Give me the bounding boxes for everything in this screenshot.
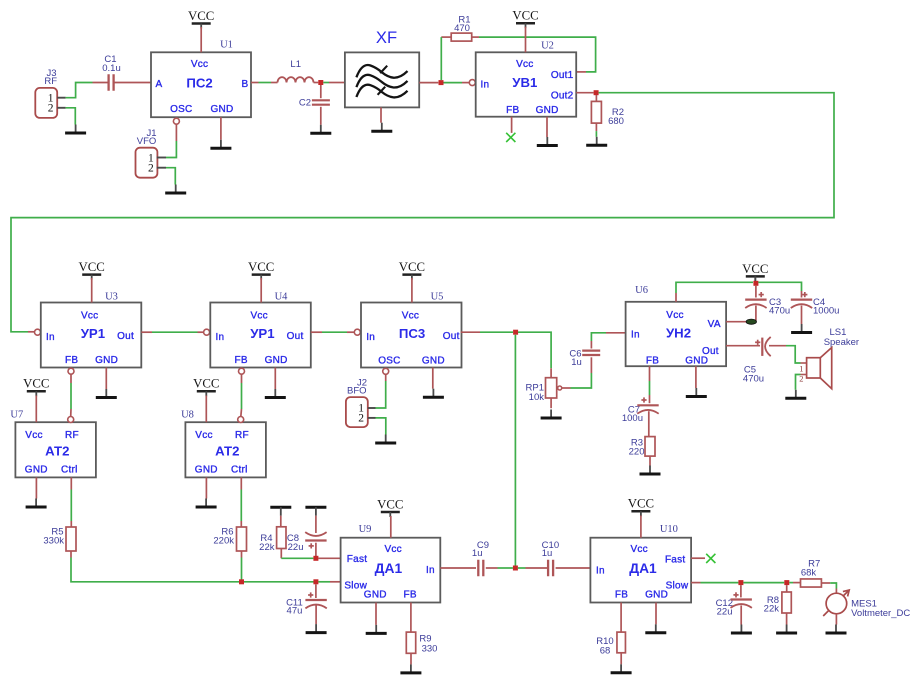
VCC symbol U10 [628,497,654,517]
wire U1 B to L1 [251,82,278,84]
node C8/Fast junction [313,556,318,561]
ground R10 [611,664,632,673]
node U5 Out junction [513,330,518,335]
wire feedback Out2 to U3 In [11,93,834,332]
capacitor C11 47u [286,584,327,624]
wire VCC to U3 Vcc pin [91,278,93,303]
ground R3 [640,466,661,475]
svg-text:In: In [216,332,225,343]
svg-text:ПС3: ПС3 [399,326,425,341]
svg-text:BFO: BFO [347,386,367,397]
ground J1 [165,185,186,194]
svg-text:Voltmeter_DC: Voltmeter_DC [851,608,910,619]
wire junction to XF [323,82,345,84]
wire to R8 node [743,582,784,584]
ground U8 GND [196,499,217,508]
svg-text:VCC: VCC [248,260,274,274]
svg-text:ДА1: ДА1 [375,561,403,576]
svg-text:68: 68 [600,645,611,656]
svg-text:Vcc: Vcc [250,311,267,322]
wire U6 VA to C3 [726,319,756,324]
connector J2 (BFO) [346,377,376,427]
svg-text:L1: L1 [290,59,301,70]
wire R1 to node [440,37,442,80]
svg-text:22k: 22k [259,542,275,553]
VCC symbol U8 [193,377,219,397]
wire VCC to U10 Vcc pin [640,516,642,538]
wire U4 Out to U5 In [311,331,354,333]
ground speaker [785,390,806,399]
svg-text:U2: U2 [541,41,554,52]
svg-text:Vcc: Vcc [191,59,208,70]
VCC symbol U4 [248,260,274,280]
U7 RF pin circle [68,417,74,423]
svg-text:GND: GND [536,105,559,116]
svg-text:RF: RF [65,430,79,441]
svg-text:Fast: Fast [347,554,367,565]
svg-text:GND: GND [364,589,387,600]
svg-text:47u: 47u [287,606,303,617]
U2 GND stub [546,117,548,137]
VCC symbol U7 [23,377,49,397]
XF bottom pin stub [380,107,382,122]
svg-text:Out1: Out1 [551,70,574,81]
resistor R2 680 [591,95,624,137]
svg-text:U5: U5 [431,292,444,303]
svg-text:VCC: VCC [512,9,538,23]
svg-text:C2: C2 [299,97,311,108]
wire U6 FB to C7 [649,366,651,403]
wire speaker pin2 to ground [796,375,807,390]
ground R9 [400,664,421,673]
wire VCC to U7 Vcc pin [35,396,37,423]
U5 GND stub [432,368,434,389]
svg-text:FB: FB [646,356,659,367]
svg-text:Speaker: Speaker [824,337,859,348]
svg-text:Out2: Out2 [551,90,574,101]
svg-text:Ctrl: Ctrl [61,465,78,476]
svg-text:330: 330 [422,643,438,654]
VCC symbol U6 [742,262,768,282]
svg-text:FB: FB [506,105,519,116]
svg-text:GND: GND [265,355,288,366]
ground MES1 [826,625,847,634]
resistor R6 220k [213,527,246,558]
svg-text:U4: U4 [275,292,289,303]
wire R7 to voltmeter [830,583,836,593]
svg-text:VA: VA [708,319,721,330]
IC U2 УВ1 amplifier [476,41,577,117]
capacitor C1 0.1u [93,54,152,91]
ground U10 GND [645,624,666,633]
U8 GND stub [205,477,207,498]
ground U4 GND [265,389,286,398]
wire U6 Vcc to VCC rail [676,282,753,302]
node L1/C2/XF junction [318,80,323,85]
ground R8 [776,625,797,634]
ground U3 GND [96,389,117,398]
ground U7 GND [26,499,47,508]
svg-text:УВ1: УВ1 [512,75,537,90]
wire XF out to node [419,82,438,84]
U8 RF pin circle [238,417,244,423]
IC U6 УН2 audio amplifier [626,285,727,366]
IC U7 АТ2 AGC [10,410,96,478]
svg-text:22k: 22k [764,604,780,615]
svg-text:220k: 220k [213,535,234,546]
connector J3 (RF input) [35,68,65,118]
svg-text:2: 2 [48,103,54,115]
svg-text:RF: RF [44,76,57,87]
wire C5 to speaker pin1 [786,346,807,363]
resistor R4 22k [259,516,286,559]
U4 GND stub [274,368,276,390]
node Out2/R2 junction [594,90,599,95]
wire Slow bus to U9 Slow pin [318,581,340,583]
IC U3 УР1 IF amplifier [41,292,142,368]
wire R4 to Fast node [281,557,313,559]
wire R5 to Slow bus [71,558,239,582]
svg-text:VCC: VCC [628,497,654,511]
resistor R3 220 [629,437,655,466]
U4 FB pin circle [239,368,245,374]
U4 In pin circle [204,329,210,335]
svg-text:In: In [596,565,605,576]
svg-text:XF: XF [376,28,397,47]
capacitor C8 22u [287,516,327,556]
svg-text:FB: FB [65,355,78,366]
U10 Fast no-connect [691,554,715,563]
wire node to U2 In [444,82,470,84]
U2 Out2 stub [576,92,593,94]
wire VCC to U4 Vcc pin [260,278,262,303]
svg-text:1u: 1u [571,357,582,368]
VCC symbol U3 [79,260,105,280]
capacitor C5 470u [726,337,786,384]
VCC symbol U1 [188,9,214,29]
wire U9 In to C9 [440,567,476,569]
svg-text:Vcc: Vcc [666,310,683,321]
ground C8 inverted [305,507,326,516]
svg-text:U1: U1 [220,40,233,51]
crystal filter XF [345,28,419,108]
IC U1 ПС2 mixer [151,40,251,118]
ground J3 [65,125,86,134]
U1 pin GND stub [220,117,222,140]
svg-text:U10: U10 [660,524,678,535]
svg-text:GND: GND [195,465,218,476]
svg-text:VCC: VCC [742,262,768,276]
svg-text:АТ2: АТ2 [215,444,239,459]
svg-text:680: 680 [608,116,624,127]
svg-text:Out: Out [287,331,304,342]
resistor R9 330 [406,632,437,664]
wire VCC to U9 Vcc pin [390,516,392,538]
svg-text:ПС2: ПС2 [186,75,212,90]
svg-text:VCC: VCC [23,377,49,391]
svg-text:Vcc: Vcc [25,430,42,441]
wire J1 pin2 to ground [166,168,175,185]
ground U5 GND [423,389,444,398]
capacitor C3 470u [745,286,790,321]
svg-text:АТ2: АТ2 [45,444,69,459]
U9 GND stub [375,603,377,625]
svg-text:In: In [366,332,375,343]
svg-text:22u: 22u [717,606,733,617]
svg-text:220: 220 [629,446,645,457]
svg-text:VCC: VCC [79,260,105,274]
wire VCC to U2 Vcc pin [525,27,527,53]
wire R6 to Slow bus [241,558,243,580]
ground RP1 [541,410,562,419]
svg-text:GND: GND [95,355,118,366]
svg-text:10k: 10k [529,392,545,403]
IC U8 АТ2 AGC [181,410,266,478]
U6 GND stub [695,366,697,388]
wire U3 FB to U7 RF [70,374,72,417]
wire U10 FB to R10 [620,603,622,633]
svg-text:Vcc: Vcc [516,59,533,70]
svg-text:Out: Out [117,331,134,342]
svg-text:470u: 470u [769,306,790,317]
svg-text:Fast: Fast [665,555,685,566]
svg-text:VCC: VCC [399,260,425,274]
svg-text:FB: FB [615,589,628,600]
U3 GND stub [105,368,107,390]
node R8/Slow junction [784,580,789,585]
svg-text:Vcc: Vcc [384,544,401,555]
resistor R10 68 [596,632,625,664]
U10 GND stub [655,603,657,625]
svg-text:100u: 100u [622,413,643,424]
wire U9 FB to R9 [410,603,412,633]
VCC symbol U5 [399,260,425,280]
node VCC/C3/C4 junction [753,281,758,286]
inductor L1 [278,59,319,83]
svg-text:22u: 22u [288,542,304,553]
wire U3 Out to U4 In [141,331,203,333]
IC U9 ДА1 AGC detector [341,524,441,603]
node C11/Slow bus junction [313,579,318,584]
wire junction to RP1 [518,332,551,378]
wire VCC to U1 Vcc pin [200,27,202,52]
node R6/Slow bus junction [239,579,244,584]
svg-text:GND: GND [211,104,234,115]
svg-text:U7: U7 [10,410,23,421]
resistor R1 470 [441,15,479,42]
svg-text:GND: GND [25,465,48,476]
svg-text:U8: U8 [181,410,194,421]
svg-text:2: 2 [148,162,154,174]
svg-text:In: In [631,329,640,340]
svg-text:FB: FB [235,355,248,366]
wire U5 Out to junction [461,331,513,333]
U1 pin OSC [173,118,179,141]
svg-text:VCC: VCC [188,9,214,23]
U2 In pin circle [469,80,475,86]
ground XF [371,123,392,132]
svg-text:In: In [426,565,435,576]
U5 In pin circle [354,329,360,335]
IC U4 УР1 IF amplifier [210,292,310,368]
svg-text:68k: 68k [801,567,817,578]
ground C4 [791,324,812,333]
svg-text:OSC: OSC [378,356,400,367]
wire R1 to U2 Out1 [479,37,596,72]
IC U5 ПС3 product detector [361,292,462,368]
U7 GND stub [35,477,37,498]
ground R2 [586,137,607,146]
capacitor C10 1u [518,540,591,576]
svg-text:Vcc: Vcc [630,544,647,555]
wire VCC rail to C4 [758,282,801,291]
wire VCC to U5 Vcc pin [411,278,413,303]
svg-text:FB: FB [404,589,417,600]
wire Fast node to U9 Fast pin [318,557,340,559]
capacitor C6 1u [569,333,625,368]
wire to R7 [789,582,800,584]
ground R4 inverted [270,507,291,516]
svg-text:1000u: 1000u [813,306,839,317]
ground U1 GND [210,140,231,149]
svg-text:In: In [46,332,55,343]
VCC symbol U2 [512,9,538,29]
svg-text:U6: U6 [635,285,648,296]
ground U6 GND [686,388,707,397]
wire J3 pin2 to ground [66,108,76,125]
svg-text:2: 2 [358,413,364,425]
svg-text:1u: 1u [542,548,553,559]
resistor R5 330k [43,527,76,558]
svg-text:GND: GND [645,589,668,600]
svg-text:УР1: УР1 [250,326,274,341]
ground C12 [731,625,752,634]
wire J2 pin2 to ground [376,418,386,435]
wire RP1 wiper to C6 [571,357,592,388]
VCC symbol U9 [377,497,403,517]
ground J2 [375,435,396,444]
U5 OSC pin circle [383,368,389,374]
svg-text:U9: U9 [359,524,372,535]
svg-text:1u: 1u [472,548,483,559]
svg-text:VCC: VCC [377,497,403,511]
svg-text:VFO: VFO [137,136,157,147]
svg-text:B: B [241,79,248,90]
svg-text:U3: U3 [105,292,118,303]
wire OSC to J1 pin1 [166,141,176,158]
wire U5 OSC to J2 pin1 [376,374,386,408]
node XF/R1/U2 junction [439,80,444,85]
ground U9 GND [366,625,387,634]
svg-text:0.1u: 0.1u [102,63,121,74]
svg-text:Vcc: Vcc [81,311,98,322]
wire U10 Slow to C12 node [691,582,738,584]
capacitor C9 1u [472,540,513,576]
ground C2 [310,125,331,134]
capacitor C4 1000u [791,291,840,324]
svg-text:Vcc: Vcc [195,430,212,441]
svg-text:OSC: OSC [170,104,192,115]
svg-text:УН2: УН2 [666,325,691,340]
U3 In pin circle [35,329,41,335]
svg-text:VCC: VCC [193,377,219,391]
wire J3 pin1 to C1 [66,83,93,98]
connector J1 (VFO) [136,128,167,178]
speaker LS1 [799,327,859,389]
potentiometer RP1 10k [526,378,571,409]
ground C11 [306,624,327,633]
capacitor C2 [299,85,330,125]
node C12/Slow junction [738,580,743,585]
U3 FB pin circle [68,368,74,374]
wire Slow bus to C11 node [244,581,314,583]
svg-text:GND: GND [422,356,445,367]
U2 FB no-connect [506,117,515,142]
wire junction down to C9/C10 node [514,335,516,566]
svg-text:470u: 470u [743,373,764,384]
wire U7 Ctrl to R5 [70,477,72,527]
svg-text:330k: 330k [43,535,64,546]
svg-text:GND: GND [685,356,708,367]
capacitor C7 100u [622,397,659,436]
svg-text:Vcc: Vcc [402,311,419,322]
ground U2 GND [537,137,558,146]
svg-text:Slow: Slow [666,580,689,591]
resistor R8 22k [764,585,792,624]
svg-text:In: In [481,80,490,91]
svg-text:A: A [155,79,162,90]
svg-text:Ctrl: Ctrl [231,465,248,476]
voltmeter MES1 [823,590,910,625]
svg-text:УР1: УР1 [81,326,105,341]
wire U4 FB to U8 RF [240,374,243,417]
resistor R7 68k [801,559,831,588]
capacitor C12 22u [716,585,752,624]
svg-text:Out: Out [443,331,460,342]
svg-text:ДА1: ДА1 [629,561,657,576]
node C9/C10/bus junction [513,566,518,571]
wire U8 Ctrl to R6 [240,477,242,527]
IC U10 ДА1 AGC detector [590,524,691,603]
svg-text:1: 1 [799,364,803,374]
wire VCC to U8 Vcc pin [205,396,207,423]
svg-text:RF: RF [235,430,249,441]
